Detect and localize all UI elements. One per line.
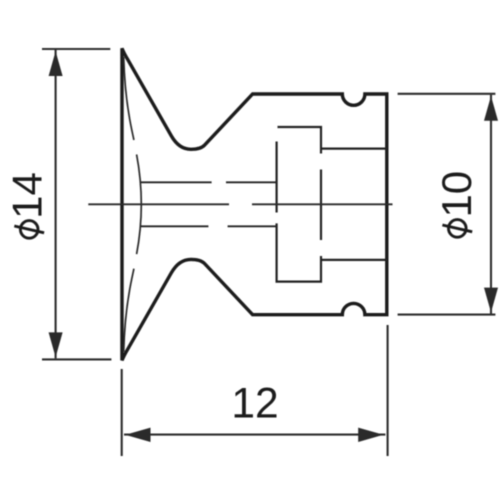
dimension phi10: extension lines [398,94,496,315]
svg-text:14: 14 [4,172,51,219]
part outline (side view of push rivet) [122,48,387,360]
dimension 12: extension lines [122,325,388,456]
label phi14 [4,172,51,238]
internal bore lines [277,127,387,282]
dimension phi14: extension lines [42,49,111,359]
bottom step of internal bore [321,259,387,261]
label phi10 [433,171,480,237]
shank silhouette lines [141,182,277,226]
12 arrows [125,428,383,442]
center line [88,203,392,205]
phi14 dimension line [55,50,57,358]
left bore vertical upper segment [276,142,278,213]
phi10 dimension line [490,95,492,314]
12 dimension line [124,434,385,436]
phi14 arrows [49,51,63,357]
top step of internal bore [278,127,322,154]
countersink inner edge (thin) [124,57,142,352]
inner bore end vertical [320,170,322,241]
svg-text:10: 10 [433,171,480,218]
svg-text:12: 12 [231,381,278,428]
phi10 arrows [484,96,498,312]
